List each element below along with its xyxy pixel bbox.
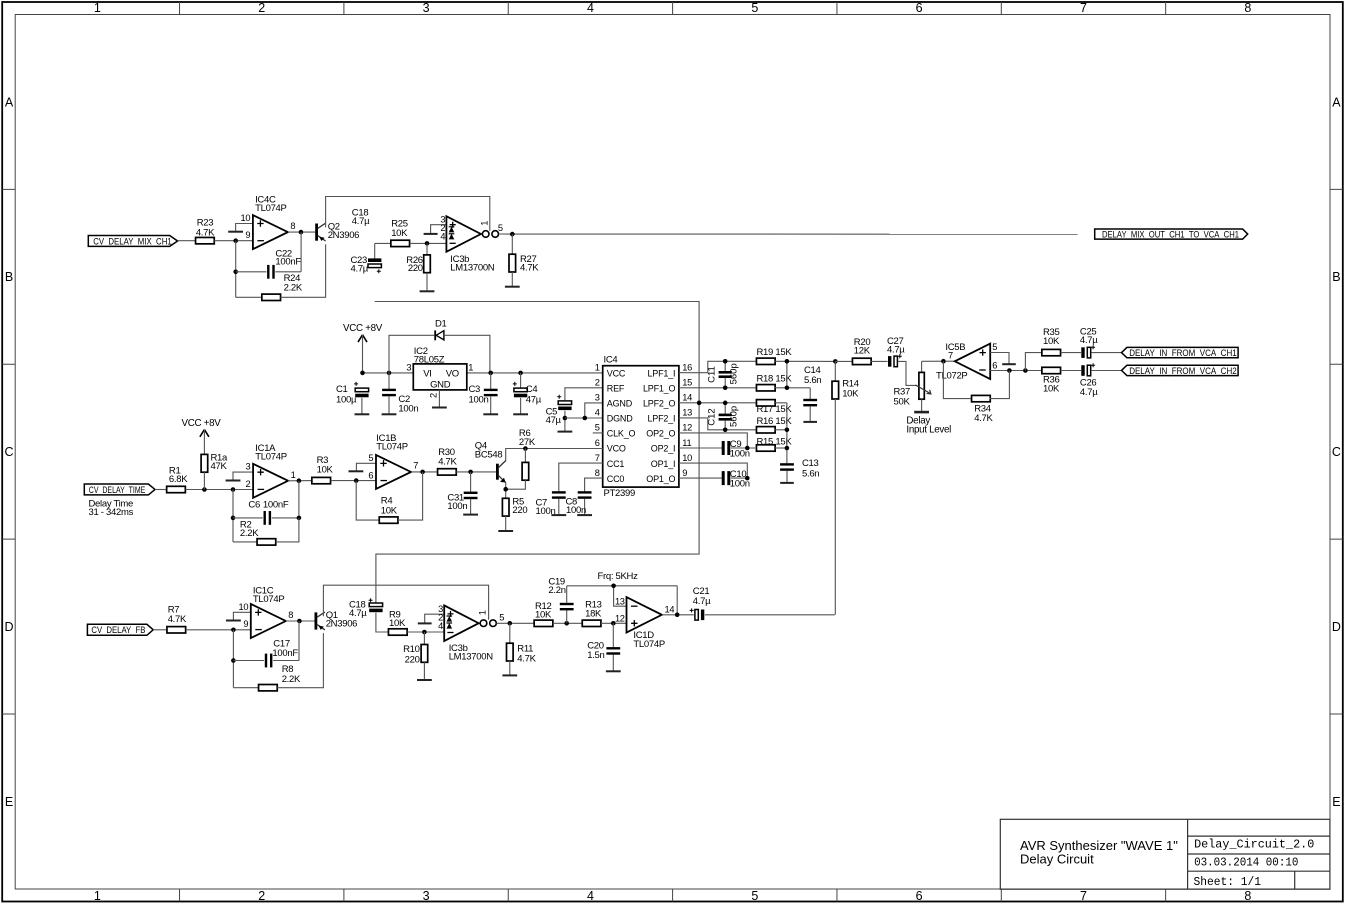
svg-text:4.7K: 4.7K: [974, 413, 993, 424]
op-amp IC1D noninverting (mirrored inputs): [615, 596, 674, 649]
svg-text:4: 4: [587, 1, 594, 15]
svg-text:1: 1: [477, 610, 487, 615]
svg-text:OP2_I: OP2_I: [651, 444, 676, 454]
junction C12 top: [723, 401, 728, 406]
wire R35 jog up: [1025, 353, 1041, 371]
junction C4: [518, 371, 523, 376]
capacitor C18 4.7u polarized: [349, 598, 383, 619]
junction feedback C22 row: [233, 270, 238, 275]
ground under C1: [355, 413, 370, 415]
transistor Q4 BC548: [475, 440, 506, 482]
svg-text:C11: C11: [706, 366, 717, 383]
svg-text:CC1: CC1: [607, 459, 625, 469]
wire R35 to C25: [1061, 352, 1082, 354]
ground AGND under C13: [780, 482, 794, 484]
resistor R27: [509, 234, 539, 287]
capacitor C10 100n: [722, 469, 750, 490]
wire IC1A feedback vertical: [232, 490, 234, 542]
junction Q4 emitter / R6 / R5: [503, 487, 508, 492]
svg-text:CLK_O: CLK_O: [607, 429, 636, 439]
ground under R26: [420, 290, 435, 292]
ground AGND at IC1A noninverting input: [226, 472, 254, 480]
capacitor C20 1.5n: [587, 623, 620, 671]
svg-text:2: 2: [595, 378, 600, 388]
wire IC1C output to Q1 base: [286, 620, 315, 622]
capacitor C27 4.7u polarized: [887, 336, 905, 367]
wire pin11 to C9: [679, 447, 723, 449]
wire pin10 jog to C10 node: [679, 463, 747, 478]
svg-text:BC548: BC548: [475, 450, 503, 461]
title block project name text: [1020, 838, 1178, 866]
op-amp IC4C: [241, 195, 296, 250]
svg-text:7: 7: [948, 350, 953, 360]
junction C1: [360, 371, 365, 376]
svg-text:50K: 50K: [894, 397, 911, 408]
junction C6 row: [231, 516, 236, 521]
junction IC1C input/feedback: [231, 628, 236, 633]
svg-text:9: 9: [243, 619, 248, 629]
svg-text:VO: VO: [446, 369, 459, 380]
svg-text:5.6n: 5.6n: [804, 375, 821, 386]
junction C20 tap: [611, 621, 616, 626]
wire IC4C output to Q2 base: [288, 231, 316, 233]
svg-text:8: 8: [290, 221, 295, 231]
ground AGND at IC3b noninverting input: [424, 225, 447, 234]
svg-text:10: 10: [682, 453, 692, 463]
junction IC1D output / C19 rail: [675, 613, 680, 618]
resistor R24: [236, 244, 326, 300]
svg-text:220: 220: [512, 505, 527, 516]
capacitor C2 100n: [382, 373, 418, 415]
ground AGND at IC4C noninverting input: [228, 224, 253, 232]
svg-text:13: 13: [615, 596, 625, 606]
svg-text:LM13700N: LM13700N: [449, 652, 494, 663]
capacitor C7 100n on CC1: [536, 463, 603, 517]
capacitor C25 4.7u polarized: [1080, 327, 1098, 358]
svg-text:10: 10: [239, 602, 249, 612]
svg-text:R19 15K: R19 15K: [757, 347, 793, 358]
svg-text:1: 1: [94, 889, 101, 903]
svg-text:IC4: IC4: [604, 355, 618, 366]
svg-text:220: 220: [408, 263, 423, 274]
wire R3 to IC1B inverting input: [331, 480, 376, 482]
diode D1: [389, 318, 490, 373]
wire AGND pin to DGND row: [565, 403, 603, 418]
ground under R27: [505, 286, 520, 288]
svg-text:14: 14: [665, 605, 675, 615]
svg-text:A: A: [5, 95, 14, 109]
svg-text:47µ: 47µ: [546, 415, 562, 426]
resistor R30: [438, 447, 458, 475]
ground under R10: [417, 679, 432, 681]
ground under C20: [606, 670, 621, 672]
svg-text:10K: 10K: [842, 388, 859, 399]
svg-text:2.2K: 2.2K: [282, 674, 301, 685]
svg-text:78L05Z: 78L05Z: [414, 354, 445, 365]
ground under C4: [513, 413, 528, 415]
junction R11 tap: [508, 621, 513, 626]
wire C18 bottom to R9: [376, 613, 389, 632]
flag CV_DELAY_MIX_CH1: [88, 236, 177, 247]
ground under C3: [483, 413, 498, 415]
svg-text:100n: 100n: [730, 449, 750, 460]
wire node Y R17/R16/R15 vertical: [775, 403, 787, 464]
op-amp IC1C: [239, 586, 294, 638]
svg-text:12K: 12K: [854, 345, 871, 356]
svg-text:5.6n: 5.6n: [802, 468, 819, 479]
svg-text:7: 7: [413, 461, 418, 471]
svg-text:6: 6: [595, 438, 600, 448]
svg-text:4.7µ: 4.7µ: [1080, 335, 1098, 346]
resistor R13 18K: [582, 599, 602, 626]
svg-text:5: 5: [751, 889, 758, 903]
wire pin16 with jog up to R19 row: [679, 361, 757, 372]
svg-text:14: 14: [682, 393, 692, 403]
svg-text:PT2399: PT2399: [604, 488, 635, 499]
wire Q1 collector to IC3b bias rail (bottom): [323, 585, 488, 620]
svg-text:13: 13: [682, 408, 692, 418]
junction IC4C output: [299, 230, 304, 235]
svg-text:C: C: [1332, 445, 1341, 459]
wire R13 to IC1D noninverting input: [601, 622, 627, 624]
ground under R37: [914, 411, 929, 414]
wire flag to R23: [178, 240, 196, 242]
wire IC5B noninverting to ground: [990, 353, 1016, 365]
junction IC1A feedback tap: [231, 487, 236, 492]
OTA IC3b LM13700N (bottom): [438, 604, 504, 663]
svg-text:LM13700N: LM13700N: [450, 262, 495, 273]
svg-text:R10: R10: [403, 644, 420, 655]
svg-text:OP2_O: OP2_O: [646, 429, 675, 439]
svg-text:10K: 10K: [317, 465, 334, 476]
svg-text:3: 3: [406, 362, 411, 372]
wire node X R19/R18 junction vertical: [775, 361, 835, 387]
junction IC1A output: [297, 478, 302, 483]
svg-text:DELAY_IN_FROM_VCA_CH1: DELAY_IN_FROM_VCA_CH1: [1129, 348, 1237, 358]
svg-text:4.7µ: 4.7µ: [352, 216, 370, 227]
op-amp IC5B mirrored: [936, 342, 997, 382]
junction C31 tap: [468, 470, 473, 475]
svg-text:E: E: [1332, 795, 1340, 809]
svg-text:CV_DELAY_FB: CV_DELAY_FB: [91, 625, 145, 635]
wire pin13 with jog down to R16 row: [679, 418, 757, 430]
ground under R5: [498, 530, 513, 532]
svg-text:2: 2: [258, 889, 265, 903]
resistor R25: [391, 219, 410, 247]
junction R18 right: [785, 385, 790, 390]
svg-text:4.7µ: 4.7µ: [1080, 387, 1098, 398]
junction IC1C output: [297, 619, 302, 624]
junction R10 tap: [422, 630, 427, 635]
junction loop / pin14: [697, 401, 702, 406]
wire C19 top rail to IC1D: [567, 586, 678, 615]
ground AGND at IC3b noninverting input (bottom): [418, 614, 444, 623]
svg-text:4: 4: [595, 408, 600, 418]
resistor R2 feedback: [233, 518, 299, 545]
ground under C31: [463, 514, 478, 516]
wire node X to R20: [835, 360, 852, 362]
wire Q2 collector to IC3b bias rail: [326, 197, 490, 231]
svg-text:B: B: [1332, 270, 1340, 284]
ground under C5: [558, 431, 573, 433]
svg-text:12: 12: [682, 423, 692, 433]
svg-text:C: C: [4, 445, 13, 459]
junction R26 tap: [425, 241, 430, 246]
svg-text:REF: REF: [607, 383, 625, 393]
svg-text:DELAY_MIX_OUT_CH1_TO_VCA_CH1: DELAY_MIX_OUT_CH1_TO_VCA_CH1: [1102, 229, 1239, 239]
svg-text:Delay Circuit: Delay Circuit: [1020, 852, 1094, 867]
svg-text:4.7µ: 4.7µ: [351, 264, 369, 275]
ground under R11: [502, 674, 517, 676]
voltage regulator IC2 78L05Z: [406, 346, 473, 398]
svg-text:4.7K: 4.7K: [168, 614, 187, 625]
capacitor C11 560p: [706, 361, 739, 387]
wire feedback left vertical (bottom): [232, 630, 234, 688]
svg-text:VCO: VCO: [607, 444, 626, 454]
capacitor C31 100n: [447, 472, 477, 515]
wire IC1A output to R3: [288, 480, 313, 482]
svg-text:6.8K: 6.8K: [169, 474, 188, 485]
svg-text:VCC +8V: VCC +8V: [343, 323, 383, 334]
svg-text:100nF: 100nF: [263, 500, 289, 511]
svg-text:3: 3: [595, 393, 600, 403]
svg-text:7: 7: [1080, 1, 1087, 15]
svg-text:12: 12: [615, 614, 625, 624]
resistor R36 10K: [1042, 367, 1061, 394]
svg-text:LPF2_I: LPF2_I: [647, 414, 675, 424]
wire C21 to R14 bottom: [705, 614, 835, 616]
svg-text:TL074P: TL074P: [633, 639, 664, 650]
ground under C8: [577, 514, 592, 516]
svg-text:TL074P: TL074P: [253, 594, 284, 605]
capacitor C14 5.6n: [803, 365, 821, 422]
junction R35 jog: [1023, 368, 1028, 373]
junction pin13 branch: [611, 584, 616, 589]
resistor R3: [312, 455, 334, 484]
ground IC2 GND pin: [432, 390, 447, 408]
svg-text:2.2K: 2.2K: [284, 283, 303, 294]
junction R1a bottom: [202, 487, 207, 492]
svg-text:1: 1: [479, 221, 489, 226]
svg-text:6: 6: [916, 889, 923, 903]
junction C6/R2 right: [297, 516, 302, 521]
svg-text:Delay_Circuit_2.0: Delay_Circuit_2.0: [1194, 838, 1314, 852]
title block frame: [1000, 819, 1330, 889]
junction IC1B output: [420, 470, 425, 475]
svg-text:3: 3: [423, 889, 430, 903]
pin 5 CLK_O stub: [593, 432, 603, 434]
annotation Delay Input Level: [906, 416, 951, 436]
svg-text:Sheet: 1/1: Sheet: 1/1: [1194, 875, 1262, 889]
svg-text:4.7µ: 4.7µ: [693, 596, 711, 607]
wire IC3b output to R12: [497, 622, 535, 624]
junction R6 top: [523, 446, 528, 451]
wire R30 to Q4 base: [456, 471, 496, 473]
svg-text:8: 8: [1244, 1, 1251, 15]
svg-text:3: 3: [423, 1, 430, 15]
svg-text:4: 4: [440, 232, 445, 242]
resistor R16 15K: [756, 416, 792, 433]
svg-text:1: 1: [468, 362, 473, 372]
svg-text:OP1_I: OP1_I: [651, 459, 676, 469]
svg-text:7: 7: [595, 453, 600, 463]
flag DELAY_IN_FROM_VCA_CH2: [1122, 365, 1239, 375]
resistor R6: [506, 428, 536, 489]
capacitor C8 100n on CC0: [566, 478, 603, 516]
junction R4 tap: [354, 478, 359, 483]
capacitor C6 100nF feedback: [233, 481, 299, 525]
wire IC5B inverting input row: [990, 370, 1042, 372]
junction AGND/DGND: [583, 416, 588, 421]
svg-text:TL074P: TL074P: [255, 452, 286, 463]
junction R16 right: [785, 428, 790, 433]
wire C25 to flag: [1091, 352, 1121, 354]
frame column numbers top: [94, 1, 1251, 15]
wire flag to R1: [155, 489, 167, 491]
junction R19 right: [785, 359, 790, 364]
ground AGND at IC1B noninverting input: [349, 463, 377, 471]
svg-text:LPF1_I: LPF1_I: [647, 368, 675, 378]
power symbol VCC +8V above R1a: [181, 418, 221, 455]
svg-text:CV_DELAY_TIME: CV_DELAY_TIME: [89, 485, 146, 495]
svg-text:3: 3: [246, 462, 251, 472]
wire R23 to IC4C inverting input: [214, 240, 253, 242]
resistor R19 15K: [756, 347, 792, 364]
wire IC3b output: [499, 233, 1078, 235]
wire pin9 to C10: [679, 477, 723, 479]
capacitor C4 47u polarized: [513, 373, 542, 414]
wire R1 to IC1A inverting input: [185, 489, 253, 491]
transistor Q2 2N3906: [315, 222, 359, 242]
svg-text:2: 2: [429, 393, 439, 398]
svg-text:8: 8: [595, 468, 600, 478]
capacitor C17 100nF: [233, 621, 299, 667]
wire R25 to IC3b inverting input: [410, 242, 447, 244]
junction feedback right: [1007, 368, 1012, 373]
svg-text:Frq: 5KHz: Frq: 5KHz: [598, 571, 639, 582]
svg-text:9: 9: [682, 468, 687, 478]
wire Q4 collector to VCO pin: [506, 449, 603, 461]
junction C9/R15/pin12 node: [745, 446, 750, 451]
svg-text:TL074P: TL074P: [255, 203, 286, 214]
resistor R17 15K: [756, 400, 792, 415]
frame row letters left: [4, 95, 13, 808]
svg-text:10K: 10K: [1043, 384, 1060, 395]
capacitor C12 560p: [706, 403, 739, 430]
wire LPF2_O loop (pin14 around IC4 to C23/C18): [375, 302, 757, 603]
svg-text:DGND: DGND: [607, 414, 633, 424]
potentiometer R37 50K: [894, 361, 931, 412]
capacitor C9 100n: [722, 439, 757, 460]
wire R36 to C26: [1061, 370, 1082, 372]
svg-text:220: 220: [405, 655, 420, 666]
svg-text:5: 5: [595, 423, 600, 433]
resistor R18 15K: [756, 374, 792, 391]
resistor R8 feedback: [233, 633, 323, 691]
junction R15 right: [785, 446, 790, 451]
resistor R14 10K to feedback node: [832, 361, 859, 614]
svg-text:VCC +8V: VCC +8V: [181, 418, 221, 429]
svg-text:2: 2: [258, 1, 265, 15]
wire R37 top to IC5B output: [922, 360, 955, 362]
junction C11 bottom: [723, 385, 728, 390]
capacitor C26 4.7u polarized: [1080, 363, 1098, 398]
svg-text:47K: 47K: [211, 461, 228, 472]
svg-text:10K: 10K: [1043, 336, 1060, 347]
svg-text:4.7µ: 4.7µ: [349, 608, 367, 619]
svg-text:1: 1: [595, 363, 600, 373]
svg-text:DELAY_IN_FROM_VCA_CH2: DELAY_IN_FROM_VCA_CH2: [1129, 366, 1237, 376]
power symbol VCC +8V (supply rail): [343, 323, 383, 373]
svg-text:2.2n: 2.2n: [548, 585, 565, 596]
svg-text:5: 5: [751, 1, 758, 15]
junction C10/pin10 node: [745, 476, 750, 481]
wire C27 to potentiometer wiper: [898, 361, 917, 385]
svg-text:VI: VI: [423, 369, 431, 380]
label C18 4.7u (net label): [352, 208, 370, 228]
wire R25 input node: [375, 242, 391, 244]
junction C17 row: [231, 658, 236, 663]
capacitor C19 2.2n: [548, 576, 573, 623]
svg-text:4.7K: 4.7K: [520, 263, 539, 274]
op-amp IC1A: [246, 443, 296, 498]
resistor R35 10K: [1042, 327, 1061, 356]
junction C19 tap: [564, 621, 569, 626]
ground AGND at IC1C noninverting input: [226, 612, 251, 620]
svg-text:5: 5: [368, 453, 373, 463]
resistor R20 12K: [852, 337, 871, 365]
wire feedback left vertical: [235, 241, 237, 298]
svg-text:10K: 10K: [391, 228, 408, 239]
svg-text:2.2K: 2.2K: [240, 528, 259, 539]
wire IC1D output to C21: [662, 614, 694, 616]
svg-text:5: 5: [498, 223, 503, 233]
IC IC4 PT2399 body: [595, 355, 692, 499]
svg-text:4.7K: 4.7K: [438, 457, 457, 468]
annotation Delay Time 31-342ms: [89, 499, 134, 519]
svg-text:GND: GND: [430, 379, 451, 390]
svg-text:8: 8: [288, 610, 293, 620]
svg-text:1: 1: [94, 1, 101, 15]
svg-text:VCC: VCC: [607, 368, 626, 378]
svg-text:2N3906: 2N3906: [328, 230, 359, 241]
wire Q4 emitter to R5: [505, 483, 507, 499]
svg-text:CV_DELAY_MIX_CH1: CV_DELAY_MIX_CH1: [93, 236, 172, 246]
svg-text:4: 4: [587, 889, 594, 903]
resistor R1: [167, 465, 189, 492]
resistor R26: [406, 243, 430, 291]
svg-text:LPF1_O: LPF1_O: [643, 383, 676, 393]
capacitor C13 5.6n: [780, 458, 819, 483]
svg-text:100n: 100n: [447, 501, 467, 512]
svg-text:100nF: 100nF: [272, 648, 298, 659]
wire C26 to flag: [1091, 370, 1121, 372]
flag DELAY_IN_FROM_VCA_CH1: [1122, 347, 1239, 357]
resistor R12 10K: [534, 601, 553, 627]
resistor R34 feedback: [943, 361, 1009, 424]
capacitor C22: [236, 232, 302, 279]
capacitor C1 100u polarized: [336, 382, 369, 414]
svg-text:D: D: [4, 620, 13, 634]
svg-text:B: B: [5, 270, 13, 284]
svg-text:1: 1: [291, 470, 296, 480]
svg-text:16: 16: [682, 363, 692, 373]
svg-text:4: 4: [438, 621, 443, 631]
svg-text:6: 6: [368, 470, 373, 480]
svg-text:9: 9: [245, 230, 250, 240]
svg-text:10K: 10K: [381, 505, 398, 516]
svg-text:100n: 100n: [469, 394, 489, 405]
